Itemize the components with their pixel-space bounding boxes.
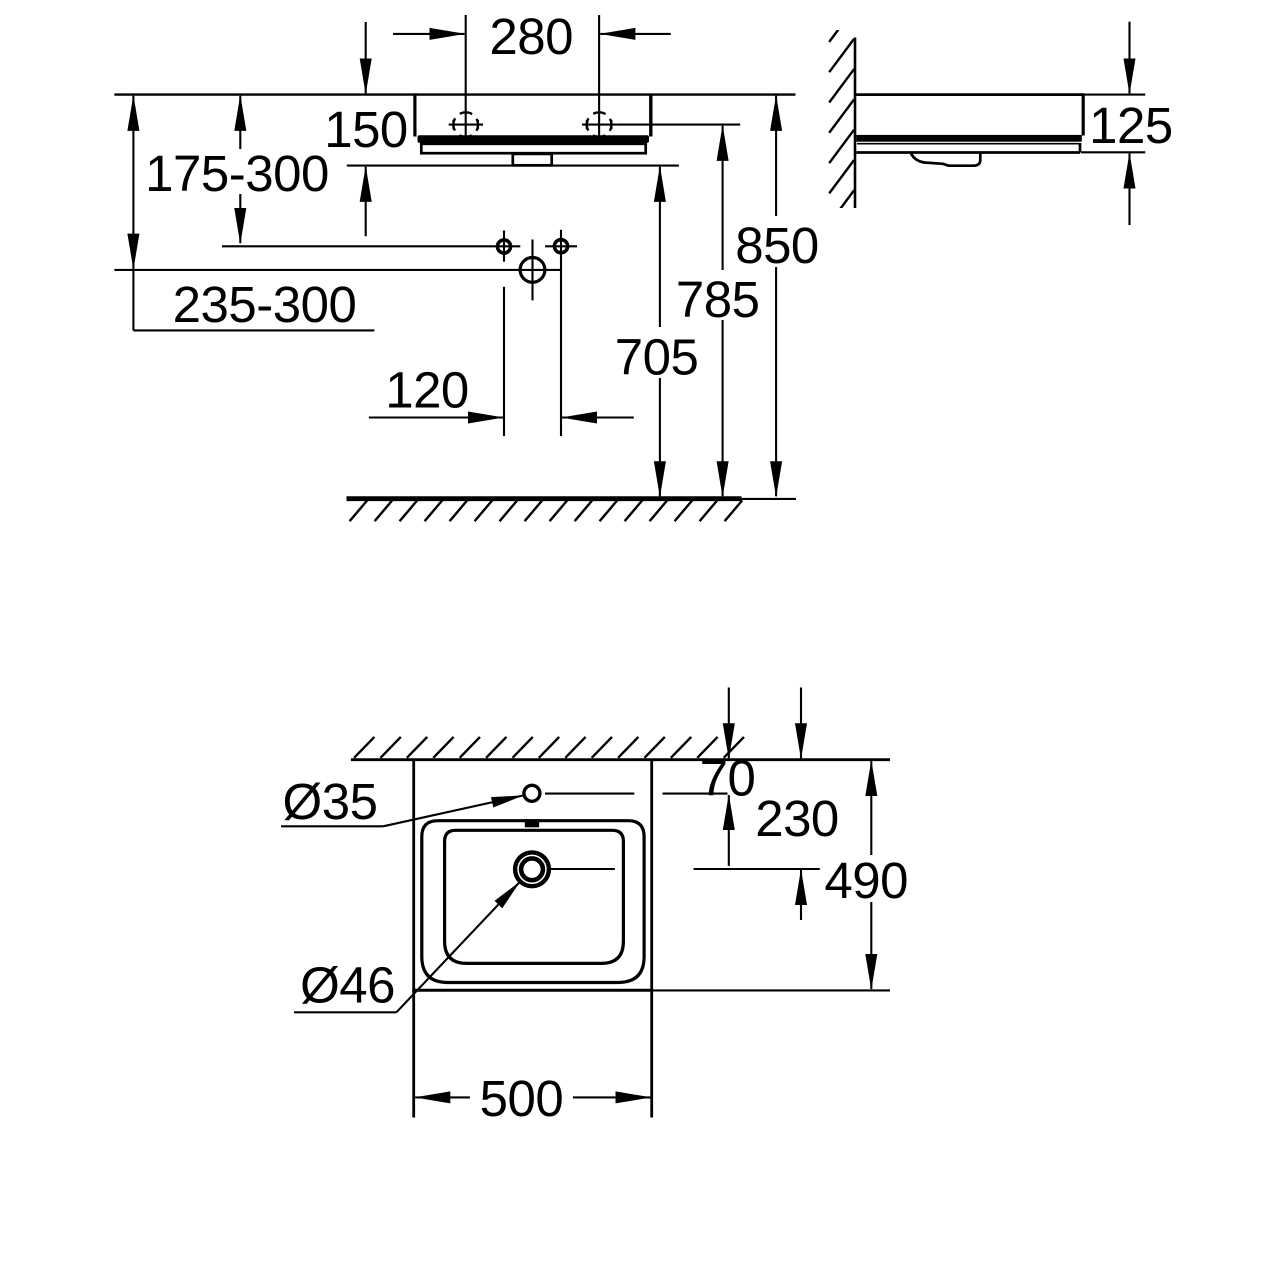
wall mount hole right bbox=[554, 240, 567, 253]
svg-text:230: 230 bbox=[755, 790, 839, 847]
svg-text:70: 70 bbox=[700, 750, 756, 807]
leader Ø46 underline bbox=[294, 1011, 396, 1013]
svg-text:Ø46: Ø46 bbox=[300, 957, 395, 1014]
basin side right edge bbox=[1082, 93, 1085, 135]
dimension line 490 bbox=[870, 761, 872, 989]
extension line 120 left bbox=[503, 287, 505, 436]
supply hole centre (big circle) bbox=[520, 258, 545, 283]
centreline ticks left hole bbox=[503, 231, 505, 262]
leader Ø35 arrow bbox=[383, 796, 522, 827]
basin side lower rim right edge bbox=[1079, 143, 1082, 153]
dimension 120 arrow right bbox=[562, 416, 634, 418]
tap hole left (dashed circle) bbox=[449, 112, 483, 137]
reference line to 785 dimension bbox=[616, 124, 740, 126]
basin front drain box bbox=[513, 154, 552, 165]
svg-text:785: 785 bbox=[676, 271, 760, 328]
dimension line 175-300 bbox=[239, 96, 241, 243]
svg-text:705: 705 bbox=[615, 328, 699, 385]
tap hole right (dashed circle) bbox=[582, 112, 616, 137]
label underline 235-300 bbox=[133, 329, 374, 331]
dimension 70 upper arrow bbox=[728, 688, 730, 759]
overflow slot tick bbox=[525, 819, 539, 827]
235-300 dimension line extension to label bbox=[132, 269, 134, 331]
dimension 230 lower arrow bbox=[800, 870, 802, 920]
floor line thin extension bbox=[742, 498, 796, 500]
top wall reference line (850 datum) bbox=[114, 93, 795, 95]
basin front body right edge bbox=[649, 93, 652, 136]
basin side lower rim top line bbox=[857, 143, 1079, 145]
basin front body left edge bbox=[413, 93, 416, 136]
dimension line 235-300 bbox=[132, 96, 134, 269]
drain hole reference line b bbox=[694, 868, 820, 870]
reference line right hole centre bbox=[545, 245, 577, 247]
dimension 280 arrow left bbox=[393, 33, 465, 35]
leader Ø46 arrow bbox=[396, 882, 519, 1012]
extension line 280 right bbox=[598, 15, 600, 143]
reference line 175-300 (small holes centre) bbox=[222, 245, 520, 247]
faucet hole circle (Ø35) bbox=[524, 785, 540, 801]
basin front black rim band bbox=[418, 135, 650, 143]
basin side drain outline bbox=[911, 154, 980, 166]
dimension 500 arrow left bbox=[415, 1096, 470, 1098]
dimension 500 arrow right bbox=[573, 1096, 651, 1098]
svg-text:125: 125 bbox=[1089, 97, 1173, 154]
reference line 235-300 (big hole centre) bbox=[114, 269, 561, 271]
floor line (thick) bbox=[347, 496, 742, 501]
wall mount hole left bbox=[497, 240, 510, 253]
dimension 230 upper arrow bbox=[800, 688, 802, 759]
basin outer square bottom edge bbox=[412, 989, 653, 992]
svg-text:Ø35: Ø35 bbox=[283, 773, 378, 830]
text-mask 850 bbox=[731, 216, 823, 267]
wall face line (side view) bbox=[854, 38, 857, 209]
faucet hole reference line a bbox=[545, 793, 634, 795]
dimension line 785 bbox=[722, 126, 724, 497]
dimension 125 lower arrow bbox=[1128, 154, 1130, 226]
bowl outer outline bbox=[422, 821, 644, 983]
bowl inner outline bbox=[445, 830, 624, 963]
basin side black rim band bbox=[856, 135, 1082, 142]
svg-text:235-300: 235-300 bbox=[173, 276, 357, 333]
text-mask 785 bbox=[673, 270, 762, 320]
dimension 150 upper arrow bbox=[365, 22, 367, 93]
svg-text:490: 490 bbox=[824, 852, 908, 909]
faucet hole reference line b bbox=[663, 793, 728, 795]
basin outer square right edge + 500 extension bbox=[650, 760, 653, 1118]
drain hole reference line a bbox=[550, 868, 615, 870]
basin side top edge bbox=[855, 93, 1084, 96]
basin side lower rim bottom line bbox=[856, 151, 1080, 154]
wall hatching (side view) bbox=[829, 9, 854, 224]
svg-text:500: 500 bbox=[480, 1070, 564, 1127]
svg-text:150: 150 bbox=[324, 101, 408, 158]
drain hole inner circle bbox=[521, 858, 543, 880]
dimension 125 upper arrow bbox=[1128, 22, 1130, 94]
reference line at drain bottom (150/705 datum) bbox=[347, 165, 679, 167]
svg-text:120: 120 bbox=[385, 362, 469, 419]
dimension line 850 bbox=[775, 96, 777, 497]
extension line 125 bottom bbox=[1081, 151, 1145, 153]
dimension 70 lower arrow bbox=[728, 795, 730, 866]
wall hatching (plan view) bbox=[354, 737, 744, 758]
svg-text:175-300: 175-300 bbox=[145, 145, 329, 202]
reference line 490 bottom bbox=[652, 989, 890, 991]
dimension line 705 bbox=[659, 167, 661, 497]
basin front lower rim bbox=[421, 144, 645, 153]
text-mask 175-300 bbox=[143, 149, 331, 194]
extension line 125 top bbox=[1083, 94, 1145, 96]
dimension 280 arrow right bbox=[600, 33, 671, 35]
text-mask 490 bbox=[822, 855, 910, 902]
basin outer square left edge + 500 extension bbox=[412, 760, 415, 1118]
wall line (plan view) bbox=[351, 758, 890, 761]
leader Ø35 underline bbox=[281, 825, 383, 827]
centreline big hole bbox=[531, 240, 533, 301]
dimension 150 lower arrow bbox=[365, 167, 367, 237]
svg-text:850: 850 bbox=[735, 217, 819, 274]
floor hatching bbox=[350, 500, 743, 521]
drain hole outer circle (Ø46) bbox=[515, 852, 549, 886]
svg-text:280: 280 bbox=[489, 8, 573, 65]
centreline + extension line 120 right bbox=[560, 230, 562, 436]
text-mask 705 bbox=[612, 327, 701, 378]
dimension 120 arrow left bbox=[369, 416, 503, 418]
extension line 280 left bbox=[465, 15, 467, 143]
